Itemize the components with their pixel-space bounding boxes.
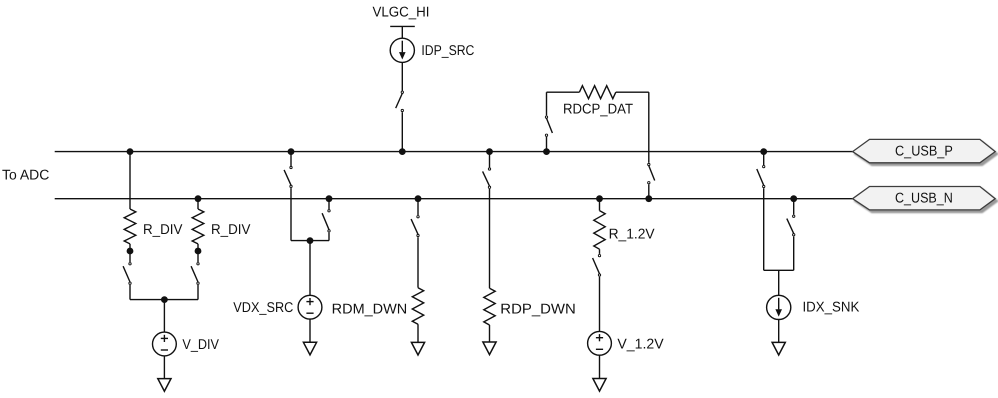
- svg-text:C_USB_P: C_USB_P: [895, 144, 953, 160]
- svg-text:IDX_SNK: IDX_SNK: [803, 300, 860, 316]
- svg-text:R_DIV: R_DIV: [143, 222, 183, 238]
- svg-text:IDP_SRC: IDP_SRC: [421, 43, 474, 59]
- svg-text:R_1.2V: R_1.2V: [609, 227, 656, 243]
- svg-text:RDM_DWN: RDM_DWN: [332, 302, 408, 318]
- svg-text:R_DIV: R_DIV: [211, 222, 251, 238]
- svg-text:V_DIV: V_DIV: [182, 337, 219, 353]
- svg-text:RDCP_DAT: RDCP_DAT: [563, 101, 633, 117]
- svg-text:C_USB_N: C_USB_N: [895, 191, 953, 207]
- svg-text:VLGC_HI: VLGC_HI: [373, 5, 430, 21]
- svg-text:V_1.2V: V_1.2V: [617, 337, 664, 353]
- svg-text:RDP_DWN: RDP_DWN: [500, 302, 576, 318]
- svg-text:To ADC: To ADC: [2, 168, 49, 184]
- svg-text:VDX_SRC: VDX_SRC: [233, 300, 293, 316]
